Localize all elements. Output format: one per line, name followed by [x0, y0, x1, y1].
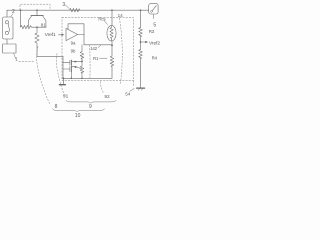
node Vref2 tap [140, 41, 142, 43]
Rcs label leader [104, 21, 108, 25]
op-amp feedback loop [68, 24, 84, 35]
wire bottom rail [63, 77, 113, 79]
svg-text:R3: R3 [149, 29, 155, 34]
transistor 9b channel bar [70, 66, 72, 71]
svg-text:Vref1: Vref1 [45, 32, 56, 38]
leader to label 92 [100, 82, 104, 94]
switch contact upper circle [5, 21, 8, 24]
resistor 81 zigzag horizontal [21, 25, 32, 28]
label 3 leader [65, 5, 69, 9]
svg-text:5: 5 [153, 23, 156, 29]
transistor 9a gate bar [69, 60, 71, 65]
transistor 9b drain arrow [71, 67, 81, 69]
wire R1 down to rail [111, 67, 113, 79]
ground (left) [63, 78, 65, 84]
label 142 leader [98, 45, 101, 47]
resistor Rcs zigzag [110, 26, 113, 41]
svg-text:Vref2: Vref2 [149, 40, 160, 46]
svg-text:9: 9 [89, 104, 92, 110]
dashed border right tail [133, 81, 135, 86]
wire R4 to ground [140, 59, 142, 88]
resistor chain x82 lower [80, 59, 84, 78]
wire top horizontal bus [7, 9, 149, 11]
dashed block top-left border [20, 4, 50, 10]
resistor R1 [110, 56, 114, 67]
node E (bus junction) [111, 9, 113, 11]
switch lever [8, 24, 10, 32]
switch contact lower circle [5, 31, 8, 34]
transistor 9b gate stub [63, 68, 70, 70]
wire mirror bottom [32, 26, 47, 28]
node 142 junction [111, 44, 113, 46]
wire left mirror branch down [20, 10, 22, 27]
label 2 leader [11, 14, 13, 17]
transistor Q1 emitter [28, 16, 31, 27]
resistor chain x82 upper [80, 45, 84, 59]
wire op-amp output [78, 34, 84, 36]
node C (bus junction mid) [36, 9, 38, 11]
transistor pair bar [31, 15, 43, 17]
svg-text:9b: 9b [71, 48, 76, 53]
wire oval to node 142 [111, 41, 113, 56]
dashed inner border x90 [89, 45, 91, 78]
svg-text:Rcs: Rcs [98, 16, 106, 21]
svg-text:54: 54 [125, 91, 131, 96]
protector box 5 [149, 4, 158, 14]
svg-text:R1: R1 [93, 56, 99, 61]
svg-text:10: 10 [75, 113, 81, 119]
wire box2 to box1 [6, 39, 8, 44]
svg-text:142: 142 [90, 46, 97, 51]
svg-text:8: 8 [55, 104, 58, 110]
svg-text:1: 1 [15, 56, 18, 61]
Vref1 arrow [59, 34, 63, 36]
wire to cluster [37, 55, 63, 57]
wire R3 to tap [140, 37, 142, 50]
resistor 8 vertical (x37) [35, 27, 39, 55]
wire bus down to R3 [140, 10, 142, 27]
dashed IC box 14 [62, 18, 134, 81]
dashed stub near box 1 [19, 61, 35, 63]
resistor R4 [139, 49, 143, 58]
resistor R3 [139, 27, 143, 36]
leader to label 8 [37, 47, 50, 105]
node I (bus junction right) [140, 9, 142, 11]
label 5 leader [152, 14, 155, 18]
resistor 3 zigzag on bus [70, 8, 80, 12]
label 54 leader [130, 88, 135, 91]
brace 10 [53, 109, 105, 112]
brace 9 [66, 100, 116, 103]
transistor 9b gate bar [69, 67, 71, 72]
dashed inner border x120 [119, 18, 122, 84]
wire feedback to node 142 [84, 44, 112, 46]
Vref2 arrow [141, 41, 147, 43]
leader to label 91 [56, 54, 64, 96]
wire from switch box 2 up to bus [6, 10, 8, 17]
switch box 2 [3, 17, 13, 39]
transistor Q2 emitter [43, 16, 46, 27]
protector blade [152, 6, 156, 11]
svg-text:R4: R4 [152, 56, 158, 61]
transistor 9a drain arrow [71, 61, 81, 63]
node F [63, 77, 65, 79]
transistor 9a channel bar [70, 60, 72, 65]
node A (bus junction left) [20, 9, 22, 11]
label 1 leader [14, 53, 16, 59]
svg-text:9a: 9a [71, 41, 76, 46]
current sense oval Rcs [107, 25, 116, 41]
svg-text:81: 81 [41, 22, 46, 27]
wire bus into oval [111, 10, 113, 25]
transistor 9a / 9b cluster [62, 56, 64, 78]
node D [81, 61, 83, 63]
svg-text:14: 14 [118, 13, 124, 18]
svg-text:3: 3 [62, 2, 65, 8]
op-amp U1 [66, 28, 78, 40]
svg-text:91: 91 [63, 93, 69, 99]
wire output down [83, 35, 85, 45]
svg-text:2: 2 [12, 9, 15, 15]
protector contact [151, 11, 153, 13]
node H [81, 77, 83, 79]
wire 9b source to ground rail [70, 72, 72, 79]
ground (right) [137, 87, 145, 89]
node B [36, 26, 38, 28]
node G [71, 77, 73, 79]
transistor 9a gate stub [63, 62, 70, 64]
battery box 1 [3, 44, 16, 53]
R1 label leader [100, 57, 108, 59]
wire bus to mirror bar [36, 10, 38, 15]
svg-text:92: 92 [104, 94, 110, 100]
